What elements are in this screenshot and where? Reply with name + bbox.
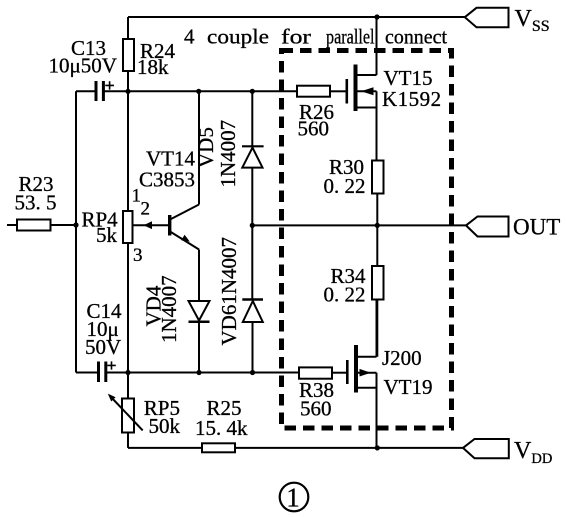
svg-text:50k: 50k bbox=[149, 414, 181, 438]
svg-text:2: 2 bbox=[141, 199, 151, 220]
svg-text:couple: couple bbox=[207, 25, 269, 49]
svg-text:10μ50V: 10μ50V bbox=[49, 53, 117, 77]
node junction top rail / VT15 drain bbox=[374, 14, 379, 19]
mosfet VT19 bbox=[346, 300, 377, 448]
diode VD4 bbox=[189, 301, 210, 373]
svg-text:connect: connect bbox=[385, 25, 447, 49]
resistor R34 bbox=[372, 225, 384, 356]
svg-text:53. 5: 53. 5 bbox=[15, 191, 57, 215]
capacitor C14 bbox=[99, 361, 116, 382]
text note 4 couple for parallel connect bbox=[184, 25, 447, 49]
svg-text:560: 560 bbox=[298, 117, 330, 141]
wire left vertical x=76 bbox=[75, 91, 77, 372]
wire VDD rail y=447.9 bbox=[128, 447, 463, 449]
svg-text:0. 22: 0. 22 bbox=[324, 174, 366, 198]
terminal OUT flag bbox=[466, 217, 509, 237]
resistor R38 bbox=[299, 367, 346, 378]
mosfet VT15 bbox=[346, 17, 377, 161]
svg-text:5k: 5k bbox=[96, 223, 118, 247]
wire bottom rail y=372.5 bbox=[76, 372, 299, 374]
svg-text:4: 4 bbox=[184, 25, 195, 49]
svg-text:J200: J200 bbox=[382, 346, 422, 370]
svg-text:560: 560 bbox=[300, 397, 332, 421]
capacitor C13 bbox=[96, 81, 114, 101]
svg-text:VD5: VD5 bbox=[194, 127, 218, 168]
resistor R30 bbox=[372, 161, 384, 226]
transistor VT14 bbox=[168, 91, 199, 301]
node junction R23/left vertical bbox=[73, 222, 78, 227]
svg-text:15. 4k: 15. 4k bbox=[195, 416, 248, 440]
terminal VSS flag bbox=[465, 8, 509, 27]
resistor R25 bbox=[202, 443, 235, 452]
diode VD5 bbox=[242, 91, 264, 225]
node junction rail/VT14 collector bbox=[196, 89, 201, 94]
node junction R30-R34/OUT bbox=[375, 223, 380, 228]
resistor R26 bbox=[297, 86, 346, 97]
resistor R24 bbox=[123, 17, 134, 91]
wire top rail from R24 top to VSS terminal bbox=[128, 16, 465, 18]
dashed box 4 parallel couple bbox=[282, 51, 452, 429]
potentiometer RP5 bbox=[108, 373, 143, 448]
svg-text:C3853: C3853 bbox=[139, 168, 195, 192]
potentiometer RP4 bbox=[123, 91, 168, 372]
svg-text:OUT: OUT bbox=[513, 215, 560, 240]
svg-text:18k: 18k bbox=[137, 55, 169, 79]
svg-text:1: 1 bbox=[286, 483, 300, 513]
figure number circle 1 bbox=[280, 483, 309, 513]
svg-text:K1592: K1592 bbox=[382, 87, 442, 111]
node junction rail/VD4 bbox=[196, 370, 201, 375]
diode VD6 bbox=[242, 225, 263, 372]
node junction VD5-VD6/OUT bbox=[250, 223, 255, 228]
svg-text:1N4007: 1N4007 bbox=[157, 275, 181, 343]
svg-text:for: for bbox=[281, 25, 311, 49]
svg-text:0. 22: 0. 22 bbox=[324, 283, 366, 307]
node junction rail/VD5 bbox=[250, 89, 255, 94]
svg-text:VT19: VT19 bbox=[384, 375, 433, 399]
terminal VDD flag bbox=[463, 439, 509, 458]
resistor R23 bbox=[7, 220, 76, 231]
svg-text:50V: 50V bbox=[85, 335, 121, 359]
wire upper rail y=91 bbox=[76, 90, 297, 92]
node junction rail/VD6 bbox=[250, 370, 255, 375]
svg-text:VD61N4007: VD61N4007 bbox=[217, 237, 241, 346]
node junction rail/RP4-RP5 bbox=[125, 370, 130, 375]
svg-text:3: 3 bbox=[133, 245, 143, 266]
svg-text:VT15: VT15 bbox=[384, 66, 433, 90]
svg-text:parallel: parallel bbox=[326, 25, 375, 49]
svg-text:1N4007: 1N4007 bbox=[216, 120, 240, 188]
node junction VDD rail/VT19 source bbox=[375, 445, 380, 450]
wire OUT rail y=225 bbox=[252, 224, 466, 226]
node junction rail/R24 bbox=[125, 89, 130, 94]
